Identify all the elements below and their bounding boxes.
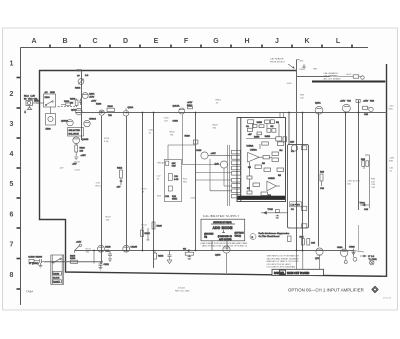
svg-text:Q104: Q104: [71, 110, 77, 112]
svg-text:10X: 10X: [172, 163, 176, 165]
R103 source resistor chain: [72, 144, 86, 166]
Q106: [91, 101, 104, 116]
svg-text:R112: R112: [117, 168, 123, 170]
wire +12V supply column: [142, 112, 144, 251]
resistor R102: [61, 101, 70, 106]
Q24A: [315, 102, 323, 115]
svg-text:+49V: +49V: [389, 158, 395, 160]
Q24B: [340, 101, 352, 113]
junction circle R96 out: [330, 76, 364, 79]
title diamond: [372, 286, 378, 292]
ground (input): [24, 106, 32, 114]
svg-text:C100: C100: [77, 70, 83, 72]
wire -8.6V rail: [296, 60, 298, 251]
svg-text:H: H: [244, 38, 249, 45]
svg-text:RANGES OF PARTS OUTLINED: RANGES OF PARTS OUTLINED: [267, 260, 300, 263]
C1008 input cap cluster: [28, 256, 44, 268]
svg-text:R620: R620: [170, 132, 176, 134]
svg-text:A15 CKT BOARD: A15 CKT BOARD: [324, 77, 342, 80]
pickoff pin pads: [291, 146, 307, 228]
dashed gate coupling wire: [58, 105, 76, 107]
Q104 input follower: [71, 108, 82, 115]
svg-text:R123: R123: [86, 249, 92, 251]
svg-text:+15V: +15V: [363, 101, 369, 103]
svg-text:C152: C152: [104, 264, 110, 266]
attenuator block A100: [164, 145, 195, 202]
svg-text:VALUES AND SERIAL NUMBER: VALUES AND SERIAL NUMBER: [267, 257, 299, 260]
bottom bus wire: [75, 250, 354, 252]
svg-text:+8V: +8V: [248, 134, 252, 136]
left ruler line: [20, 48, 22, 306]
svg-text:(OPTION: (OPTION: [235, 233, 245, 235]
svg-text:CAL HEATER: CAL HEATER: [324, 75, 338, 78]
svg-text:1M: 1M: [70, 103, 73, 105]
trigger pickoff box: [288, 145, 309, 229]
svg-text:R118: R118: [106, 217, 112, 219]
svg-text:9-35: 9-35: [174, 179, 179, 181]
grid column letters: [31, 38, 340, 45]
svg-text:RELAY: RELAY: [158, 162, 166, 165]
svg-text:U450: U450: [257, 122, 263, 124]
wires into hybrid top: [280, 112, 284, 118]
svg-text:2: 2: [10, 91, 14, 98]
svg-text:TP44: TP44: [360, 203, 366, 205]
thick supply bus top right: [312, 81, 385, 83]
top ruler ticks: [50, 45, 352, 49]
svg-text:+15V: +15V: [91, 101, 97, 103]
wire junction down to output line: [93, 251, 95, 264]
relay coil K100 (lower section): [46, 107, 56, 131]
svg-text:On This Circuit Board: On This Circuit Board: [259, 235, 281, 238]
svg-text:R106: R106: [96, 104, 102, 106]
svg-text:C541: C541: [190, 198, 196, 200]
node -8.6V: [287, 83, 293, 85]
resistor R96: [353, 75, 359, 78]
svg-text:Q614A: Q614A: [173, 104, 180, 107]
svg-text:A1: A1: [280, 271, 284, 275]
cap C130 to ground: [108, 251, 112, 262]
transistor Q614B on main line: [123, 106, 133, 116]
node +49V: [297, 60, 304, 72]
wires below output bus: [227, 251, 303, 274]
svg-text:ADD MODE: ADD MODE: [213, 226, 234, 230]
transistor Q125: [98, 245, 112, 252]
svg-text:CAL 48MA/DIV: CAL 48MA/DIV: [324, 72, 339, 75]
Q100C: [84, 119, 97, 127]
sheet number: [175, 287, 190, 292]
svg-text:+15V: +15V: [81, 155, 87, 157]
svg-text:R624: R624: [213, 125, 219, 127]
note under add mode block: [201, 242, 248, 248]
R96B labels: [300, 95, 305, 100]
svg-text:MAIN CKT BOARD: MAIN CKT BOARD: [287, 271, 309, 275]
relay K100: [44, 91, 56, 107]
lamp DS70: [370, 261, 374, 265]
svg-text:R132: R132: [158, 256, 164, 258]
svg-text:Q24A: Q24A: [128, 106, 134, 109]
op-amp U450B: [267, 178, 277, 191]
grid row numbers: [10, 61, 14, 280]
svg-text:-8.6V: -8.6V: [287, 83, 293, 85]
label C24: [213, 125, 219, 130]
svg-text:TP45: TP45: [268, 209, 274, 211]
svg-text:+170: +170: [317, 255, 323, 257]
CAL HEATER PROB SELECT note: [270, 58, 295, 69]
svg-text:+15V: +15V: [389, 106, 395, 108]
svg-text:1.2V: 1.2V: [31, 96, 36, 98]
Q628: [196, 156, 232, 168]
R34 cluster right of pickoff: [320, 172, 325, 191]
svg-text:Q604: Q604: [89, 94, 95, 96]
R110 label: [104, 138, 110, 143]
svg-text:R1008: R1008: [36, 256, 43, 258]
svg-text:2764-44: 2764-44: [383, 298, 392, 300]
wire to graticule lamp: [354, 251, 365, 253]
svg-text:R116: R116: [142, 189, 148, 191]
svg-text:D: D: [123, 38, 128, 45]
add mode switch block SW10: [201, 219, 245, 250]
left ruler ticks: [17, 78, 21, 290]
svg-text:(AND FOR ACTUAL LOCATION OF R: (AND FOR ACTUAL LOCATION OF R AND C): [202, 244, 247, 247]
radio interference suppression symbol: [250, 232, 290, 240]
net label (right edge): [389, 106, 395, 111]
svg-text:Q240: Q240: [215, 255, 221, 257]
svg-text:10K: 10K: [106, 219, 110, 221]
svg-text:C1008: C1008: [28, 256, 35, 258]
svg-text:SLIDE: SLIDE: [53, 278, 60, 280]
thermal balance box: [68, 128, 84, 137]
svg-text:R450: R450: [254, 137, 260, 139]
C100 trimmer: [75, 70, 89, 90]
svg-text:K100: K100: [45, 97, 51, 99]
svg-text:4: 4: [10, 151, 14, 158]
svg-text:15K: 15K: [347, 183, 351, 185]
svg-text:REV JUL 1980: REV JUL 1980: [175, 291, 190, 293]
svg-text:990K: 990K: [172, 199, 178, 201]
svg-text:OR DEPICTED IN GREY: OR DEPICTED IN GREY: [267, 264, 292, 266]
transistor Q128: [123, 245, 138, 252]
resistor R606 on main line: [107, 106, 115, 117]
svg-text:1: 1: [10, 61, 14, 68]
+49V top right feed: [297, 76, 331, 78]
trigger output wire: [261, 209, 288, 219]
svg-text:J100: J100: [34, 101, 40, 103]
R36 / delay line terminations: [361, 155, 369, 209]
label C618: [149, 130, 155, 135]
svg-text:MAIN: MAIN: [54, 272, 60, 275]
svg-text:8: 8: [10, 272, 14, 279]
svg-text:(1/4W): (1/4W): [32, 263, 39, 265]
svg-text:+5V: +5V: [117, 187, 121, 189]
title: OPTION 06 - CH 1 INPUT AMPLIFIER: [288, 287, 364, 292]
input pin resistor stack R430 (upper): [232, 150, 241, 175]
svg-text:R150: R150: [70, 258, 76, 260]
svg-text:R125: R125: [105, 246, 111, 248]
svg-text:+15V: +15V: [211, 153, 217, 155]
svg-text:OUTLINE IN THIS DIAGRAM: OUTLINE IN THIS DIAGRAM: [267, 266, 296, 269]
svg-text:7: 7: [10, 242, 14, 249]
op-amp U450A: [248, 149, 260, 163]
svg-text:+12V: +12V: [187, 102, 193, 104]
C620 coupling labels: [164, 118, 176, 137]
main schematic border: [40, 64, 387, 276]
R44 bias cluster: [360, 203, 370, 211]
svg-text:U450A: U450A: [250, 149, 257, 152]
wire Q70 collector column: [318, 112, 320, 247]
svg-text:-15V: -15V: [96, 183, 101, 185]
svg-text:G: G: [213, 38, 219, 45]
junction dots on buses: [101, 112, 360, 252]
wire +15V decoupled rail: [358, 100, 360, 210]
svg-text:AC: AC: [45, 91, 48, 94]
svg-text:K: K: [304, 38, 309, 45]
svg-text:SWITCH AT REAR: SWITCH AT REAR: [213, 221, 232, 224]
svg-text:3: 3: [10, 121, 14, 128]
wire J100 to relay: [36, 102, 44, 104]
wire Q106 emitter column: [101, 116, 103, 264]
wire calibrated supply column: [195, 112, 197, 251]
svg-text:R104: R104: [75, 162, 81, 164]
svg-text:R602: R602: [75, 88, 81, 90]
wire pickoff return: [302, 112, 304, 251]
arrow to graticule light: [360, 255, 377, 261]
transistor Q30: [290, 142, 298, 152]
diode CR66 cluster: [349, 247, 357, 262]
svg-text:+15V: +15V: [340, 101, 346, 103]
svg-text:R450: R450: [265, 136, 271, 138]
svg-text:IN): IN): [204, 236, 207, 238]
switch S125 cluster: [70, 242, 82, 258]
main signal path wire y=112: [76, 112, 387, 114]
bottom-left wire: [44, 261, 103, 263]
signal connector / slide switch S1008: [51, 255, 64, 284]
svg-text:LT2 PWR: LT2 PWR: [291, 205, 301, 207]
svg-text:R120: R120: [142, 225, 148, 227]
wire: drop from main line into hybrid section: [288, 112, 290, 145]
svg-text:SEE PARTS LIST FOR EARLIER: SEE PARTS LIST FOR EARLIER: [267, 255, 300, 258]
R132 below bus: [154, 251, 165, 260]
R118 label: [106, 217, 112, 222]
-15V label: [96, 183, 102, 188]
ground diamond below Q64: [344, 257, 347, 264]
svg-text:GND: GND: [50, 92, 55, 94]
wire Q64 collector column: [345, 112, 347, 249]
svg-text:Q24A: Q24A: [315, 102, 321, 105]
attenuator outside labels: [157, 162, 197, 200]
top ruler line: [21, 47, 369, 49]
resistor R240 below bus: [183, 249, 194, 260]
R120 label: [142, 225, 148, 230]
C152 with ground: [99, 262, 110, 270]
svg-text:C620: C620: [173, 121, 179, 123]
capacitor C242 with ground: [167, 251, 172, 264]
input pin resistor stack R436 (lower): [232, 178, 241, 198]
svg-text:U450B: U450B: [268, 178, 275, 180]
svg-text:BALANCE: BALANCE: [69, 133, 80, 136]
svg-text:K100: K100: [46, 129, 52, 131]
resistor R133 on wire x=142: [141, 228, 151, 240]
svg-text:ONLY): ONLY): [235, 235, 242, 237]
svg-text:470-06: 470-06: [178, 287, 186, 289]
Q604: [82, 93, 95, 99]
svg-text:A: A: [31, 38, 36, 45]
Q100A input FET: [61, 120, 73, 126]
svg-text:+49V (DCPL): +49V (DCPL): [347, 181, 360, 183]
transistor Q70: [315, 248, 323, 274]
R618 label above main line: [216, 100, 222, 105]
C614A label + transistor Q614A: [173, 102, 194, 138]
svg-text:R114: R114: [96, 185, 102, 187]
schematic notes: [267, 255, 300, 269]
transistor Q240: [188, 246, 230, 257]
svg-text:R1-2: R1-2: [24, 96, 30, 98]
svg-text:15K: 15K: [371, 181, 375, 183]
svg-text:+15V: +15V: [89, 96, 95, 98]
R150 on bottom-left wire: [70, 258, 78, 263]
R123 label: [86, 249, 92, 254]
dashed shield pair into hybrid: [227, 145, 229, 206]
plate number: [383, 298, 392, 300]
resistor R64 cluster: [300, 237, 316, 246]
input connector J100 (outside left): [24, 96, 40, 106]
capacitor C96: [303, 64, 306, 70]
wire Q24A emitter column: [126, 116, 128, 251]
R116 label: [142, 189, 148, 194]
svg-text:5: 5: [10, 181, 14, 188]
resistor R626 on supply feed: [193, 140, 198, 144]
Q624: [196, 150, 216, 159]
Q100B FET: [73, 137, 89, 144]
svg-text:PROB SELECT: PROB SELECT: [270, 61, 286, 63]
svg-text:VDC: VDC: [28, 99, 33, 101]
svg-text:E: E: [154, 38, 159, 45]
svg-text:75K: 75K: [170, 134, 174, 136]
cal heater labels: [313, 69, 341, 81]
transistor Q64: [337, 246, 348, 257]
R112 divider: [117, 168, 123, 189]
svg-text:R620: R620: [185, 136, 191, 138]
wire Q614A emitter drop: [183, 115, 196, 165]
svg-text:R240: R240: [157, 226, 163, 228]
resistor R32 below pickoff: [288, 236, 292, 242]
svg-text:(SHOWN: (SHOWN: [204, 234, 214, 236]
R100 / C101 input pair: [70, 99, 82, 108]
svg-text:DEC: DEC: [389, 108, 394, 110]
junction node: [93, 250, 95, 252]
svg-text:C: C: [92, 38, 97, 45]
TA8A reference: [26, 290, 33, 294]
+170 label: [317, 255, 323, 257]
svg-text:C1025: C1025: [131, 247, 138, 249]
wire lower right rail: [358, 225, 360, 251]
svg-text:H8V: H8V: [313, 69, 318, 71]
svg-text:CR66: CR66: [349, 247, 355, 249]
svg-text:L: L: [336, 38, 341, 45]
svg-text:C645: C645: [196, 150, 202, 152]
svg-text:+8.6V: +8.6V: [346, 74, 352, 76]
svg-text:R606: R606: [108, 106, 114, 108]
svg-text:C104: C104: [75, 170, 81, 172]
svg-text:-15V: -15V: [59, 168, 64, 170]
U450 internal network: [246, 120, 287, 149]
U450 label bar (dark): [238, 196, 286, 200]
svg-text:R133: R133: [145, 233, 151, 235]
partial board label: [272, 269, 324, 275]
svg-text:6: 6: [10, 212, 14, 219]
svg-text:Q100A: Q100A: [61, 120, 68, 123]
svg-text:6.2K: 6.2K: [104, 141, 109, 143]
svg-text:ADD MODE): ADD MODE): [219, 238, 232, 241]
wire stubs into pin stacks: [196, 159, 232, 191]
svg-text:Radio Interference Suppression: Radio Interference Suppression: [259, 232, 291, 235]
resistor R240 top: [152, 222, 163, 229]
svg-text:LT 2-2: LT 2-2: [368, 256, 375, 258]
svg-text:(PRESSED IN: (PRESSED IN: [218, 236, 232, 238]
CALIBRATED SUPPLY label: [203, 214, 240, 218]
svg-text:R100: R100: [70, 99, 76, 101]
delay line bias labels: [347, 179, 376, 189]
wire -12V supply column: [153, 112, 155, 268]
svg-text:U450A: U450A: [247, 145, 254, 148]
wire input attenuator column: [81, 70, 83, 140]
svg-text:F: F: [184, 38, 189, 45]
label LT2 TRIG PWR: [290, 202, 302, 207]
svg-text:B: B: [62, 38, 67, 45]
svg-text:+49V: +49V: [298, 61, 304, 63]
svg-text:R103: R103: [80, 148, 86, 150]
node +8.6V: [346, 74, 352, 76]
+49V vertical net label: [389, 158, 395, 173]
svg-text:CR604: CR604: [89, 119, 97, 121]
svg-text:CONT: CONT: [54, 281, 61, 283]
+15V emitter follower cluster: [356, 99, 375, 116]
svg-text:C620: C620: [164, 118, 170, 120]
svg-text:R110: R110: [104, 138, 110, 140]
svg-text:C64A: C64A: [337, 246, 343, 249]
svg-text:OPTION 06—CH 1 INPUT AMPLIFIER: OPTION 06—CH 1 INPUT AMPLIFIER: [288, 287, 364, 292]
svg-text:CALIBRATED SUPPLY: CALIBRATED SUPPLY: [203, 214, 240, 218]
svg-text:+12V: +12V: [76, 242, 82, 244]
U450 feedback parts: [247, 150, 284, 197]
-15V feed label: [59, 162, 81, 172]
svg-text:CAL HEATER: CAL HEATER: [270, 58, 284, 61]
svg-text:C618: C618: [149, 130, 155, 132]
svg-text:SELECTED: SELECTED: [69, 130, 81, 132]
svg-text:-15V: -15V: [72, 164, 77, 166]
svg-text:TA8A: TA8A: [26, 290, 33, 294]
svg-text:J: J: [275, 38, 279, 45]
svg-text:Q100B: Q100B: [82, 139, 89, 141]
hybrid amplifier U450 box: [237, 118, 286, 202]
svg-text:R618: R618: [216, 100, 222, 102]
